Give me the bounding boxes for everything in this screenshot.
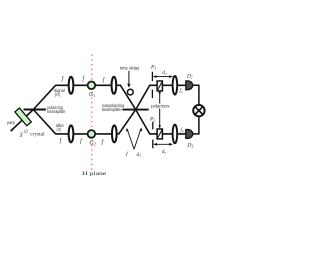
- svg-text:time delay: time delay: [120, 66, 141, 71]
- wire: BS output to P1 row: [136, 85, 187, 109]
- coincidence counter: [193, 105, 204, 116]
- wire: bottom arm horizontal: [55, 110, 135, 134]
- P1 plane bars: [151, 72, 153, 81]
- svg-text:D2: D2: [187, 142, 194, 148]
- svg-text:(V): (V): [57, 127, 62, 132]
- svg-text:P1: P1: [150, 64, 156, 70]
- svg-text:χ: χ: [19, 131, 23, 137]
- P2 plane bars: [152, 122, 154, 129]
- wire: pump beam into crystal: [11, 110, 34, 132]
- detector D1: [186, 81, 193, 90]
- svg-text:polarizers: polarizers: [151, 104, 169, 109]
- lens bottom arm 1: [69, 125, 74, 142]
- detector D2: [186, 130, 193, 139]
- svg-text:P2: P2: [149, 116, 155, 122]
- time delay circle: [127, 89, 133, 95]
- wire: top arm horizontal: [55, 85, 135, 109]
- wire: signal beam diagonal PBS to top arm: [33, 85, 55, 109]
- wire: idler beam diagonal PBS to bottom arm: [33, 110, 55, 134]
- svg-text:crystal: crystal: [30, 131, 45, 137]
- d2 dimension bottom: [154, 143, 173, 145]
- svg-text:f: f: [126, 151, 129, 158]
- wire: D2 to coincidence: [193, 116, 199, 134]
- node G2: [88, 130, 96, 138]
- svg-text:f: f: [101, 138, 104, 145]
- svg-text:G2: G2: [89, 141, 95, 147]
- crystal (chi-2): [15, 108, 31, 126]
- polarizing beamsplitter (bold line): [24, 109, 46, 111]
- annotation arrows f and d1: [127, 129, 141, 149]
- svg-text:d2: d2: [162, 71, 167, 76]
- polarizer P1: [157, 81, 162, 91]
- svg-text:D1: D1: [186, 74, 193, 80]
- svg-text:f: f: [61, 76, 64, 83]
- svg-text:d2: d2: [162, 150, 167, 155]
- wire: D1 to coincidence: [193, 85, 199, 105]
- svg-text:pump: pump: [7, 120, 15, 125]
- lens output top: [173, 76, 178, 95]
- svg-text:(H): (H): [55, 92, 61, 97]
- polarizer P2: [157, 129, 162, 139]
- svg-text:d1: d1: [136, 152, 141, 158]
- svg-text:f: f: [80, 137, 83, 144]
- lens top arm 1: [69, 77, 74, 94]
- svg-text:beamsplitter: beamsplitter: [47, 109, 66, 114]
- nonpolarizing beamsplitter (bold line): [123, 109, 149, 111]
- wire: BS output to P2 row: [136, 110, 187, 134]
- svg-text:H plane: H plane: [82, 171, 107, 177]
- node G1: [88, 82, 96, 90]
- pump arrowhead: [11, 128, 14, 131]
- svg-text:G1: G1: [89, 92, 95, 98]
- d2 dimension top: [153, 76, 172, 78]
- svg-text:f2: f2: [180, 89, 183, 94]
- lens top arm 2: [112, 77, 117, 94]
- svg-text:f: f: [103, 77, 106, 84]
- svg-text:f4: f4: [180, 128, 183, 133]
- svg-text:f: f: [82, 75, 85, 82]
- wire: dotted reference plane line: [91, 55, 93, 171]
- svg-text:beamsplitter: beamsplitter: [102, 107, 122, 112]
- lens bottom arm 2: [112, 125, 117, 142]
- svg-text:(2): (2): [24, 130, 29, 134]
- lens output bottom: [173, 125, 178, 144]
- svg-text:f: f: [60, 137, 63, 144]
